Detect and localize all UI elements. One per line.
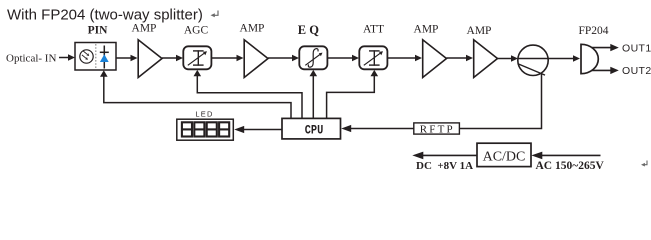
wire PIN to AMP1 [116,57,132,59]
svg-text:RFTP: RFTP [420,123,455,135]
svg-text:FP204: FP204 [578,25,608,37]
attenuator AGC [183,46,211,69]
LED digit 1 [182,122,229,136]
title return mark [214,11,218,16]
photodiode light arrow 2 [82,55,86,58]
svg-text:AC 150~265V: AC 150~265V [536,160,605,172]
dotted divider [95,44,97,69]
wire AGC bias from CPU [197,76,302,119]
wire coupler to FP204 [548,58,575,60]
wire through coupler [518,58,548,60]
svg-text:AMP: AMP [467,25,492,37]
svg-text:With FP204 (two-way splitter): With FP204 (two-way splitter) [7,7,203,24]
LED digit 2 [194,122,204,136]
wire optical input arrow [59,57,70,59]
wire AMP4 to coupler [498,58,513,60]
wire DC output arrow [421,154,477,156]
diode D1 (blue) [103,46,105,69]
wire EQ to ATT [327,57,353,59]
wire ATT bias from CPU [327,76,375,119]
svg-text:LED: LED [195,110,213,119]
wire EQ bias from CPU [312,76,314,119]
wire AMP2 to EQ [268,57,294,59]
wire RFTP to CPU [350,128,414,130]
svg-text:DC +8V 1A: DC +8V 1A [416,160,473,172]
svg-text:ATT: ATT [363,24,384,36]
RFTP module [414,123,460,134]
wire AMP1 to AGC [162,57,178,59]
wire coupler tap to RFTP [459,74,541,129]
svg-text:AMP: AMP [414,24,439,36]
photodiode circle [80,50,93,63]
power supply AC/DC [477,143,531,166]
LED display module [177,119,234,140]
splitter FP204 [581,44,598,73]
LED digit 4 [219,122,229,136]
svg-text:AC/DC: AC/DC [483,149,526,164]
coupler chord [518,64,545,76]
wire AGC to AMP2 [211,57,238,59]
stray return mark [644,161,647,165]
svg-text:OUT1: OUT1 [622,43,651,55]
CPU U1 [282,118,341,138]
op-amp AMP3 [423,40,447,78]
svg-text:PIN: PIN [88,25,109,37]
wire PIN bias from CPU [104,76,291,118]
svg-text:AGC: AGC [184,25,209,37]
svg-text:AMP: AMP [132,23,157,35]
svg-text:Optical- IN: Optical- IN [6,52,56,64]
equalizer EQ [299,46,327,69]
attenuator ATT [359,46,387,69]
LED digit 3 [207,122,217,136]
svg-text:EQ: EQ [298,23,322,37]
coupler circle [518,45,548,75]
wire AMP3 to AMP4 [447,57,468,59]
photodiode light arrow 1 [83,51,87,54]
wire to OUT1 [592,47,612,49]
photodiode module PIN [75,43,116,71]
op-amp AMP4 [474,40,498,78]
svg-text:CPU: CPU [305,123,324,138]
svg-text:OUT2: OUT2 [622,65,651,77]
wire CPU to LED [243,129,282,131]
op-amp AMP2 [244,40,268,78]
op-amp AMP1 [138,40,162,78]
wire AC input arrow [540,154,601,156]
wire to OUT2 [592,69,612,71]
wire ATT to AMP3 [387,57,416,59]
svg-text:AMP: AMP [240,23,265,35]
